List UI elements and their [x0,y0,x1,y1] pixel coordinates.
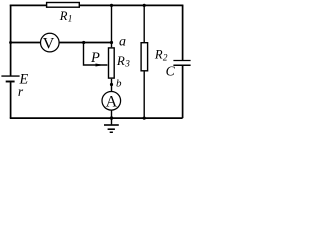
svg-text:a: a [119,35,126,50]
svg-text:V: V [43,35,55,52]
svg-text:R: R [154,47,163,61]
svg-text:3: 3 [124,59,130,69]
svg-text:A: A [106,94,118,111]
svg-text:R: R [116,53,125,68]
svg-text:C: C [166,64,176,79]
svg-text:2: 2 [163,53,168,63]
svg-text:1: 1 [68,14,73,24]
svg-text:r: r [18,84,24,99]
svg-text:b: b [116,77,122,89]
svg-text:P: P [90,50,100,66]
svg-text:R: R [59,9,68,23]
